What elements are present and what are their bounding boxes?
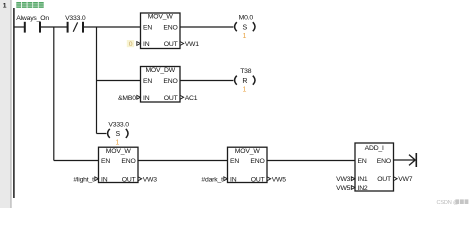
svg-text:IN2: IN2 — [358, 185, 368, 192]
svg-text:1: 1 — [242, 33, 246, 40]
svg-text:S: S — [243, 24, 248, 31]
svg-text:V333.0: V333.0 — [108, 121, 129, 128]
pin marker U4.OUT — [267, 177, 271, 181]
svg-text:R: R — [242, 78, 247, 85]
pin marker U5.IN2 — [351, 186, 355, 190]
wire rung1 rail to contact1 — [14, 26, 25, 28]
svg-text:OUT: OUT — [251, 176, 265, 183]
svg-text:IN: IN — [101, 176, 108, 183]
svg-text:IN: IN — [230, 176, 237, 183]
wire rung1 contact1 to contact2 — [40, 26, 67, 28]
svg-text:VW3: VW3 — [143, 176, 158, 183]
wire branch drop at x=53.8 to bottom rung — [53, 27, 55, 161]
svg-text:&MB0: &MB0 — [118, 95, 136, 102]
pin marker U1.IN — [137, 42, 141, 46]
box MOV_W U3 — [99, 147, 139, 183]
svg-text:VW5: VW5 — [272, 176, 287, 183]
svg-text:S: S — [116, 131, 121, 138]
coil V333.0 (S) — [108, 121, 130, 146]
watermark CSDN — [437, 199, 469, 206]
left power rail — [13, 8, 15, 198]
svg-text:ENO: ENO — [250, 158, 264, 165]
svg-text:OUT: OUT — [377, 176, 391, 183]
pin marker U3.OUT — [138, 177, 142, 181]
pin marker U5.IN1 — [351, 177, 355, 181]
wire branch drop at x=96.5 to rung2 and S-coil — [96, 27, 98, 134]
svg-text:MOV_W: MOV_W — [235, 148, 261, 155]
pin marker U2.IN — [137, 95, 141, 99]
svg-text:EN: EN — [143, 24, 152, 31]
svg-text:MOV_W: MOV_W — [106, 148, 132, 155]
wire rung1 contact2 to box U1 — [83, 26, 141, 28]
wire U1.ENO to coil M0.0 — [180, 26, 233, 28]
box MOV_W U1 — [141, 13, 181, 49]
box MOV_DW U2 — [141, 67, 181, 103]
svg-text:Always_On: Always_On — [16, 15, 49, 22]
svg-text:V333.0: V333.0 — [65, 15, 86, 22]
box MOV_W U4 — [228, 147, 268, 183]
pin marker U4.IN — [224, 177, 228, 181]
box ADD_I U5 — [355, 143, 394, 192]
continuation arrow — [409, 153, 416, 167]
svg-text:VW7: VW7 — [398, 176, 413, 183]
wire U2.ENO to coil T38 — [180, 80, 233, 82]
wire to coil V333.0 — [97, 133, 107, 135]
svg-text:ENO: ENO — [377, 158, 391, 165]
wire U3.ENO to box U4 — [138, 160, 228, 162]
svg-text:0: 0 — [129, 41, 133, 48]
svg-text:VW5: VW5 — [336, 185, 351, 192]
svg-text:T38: T38 — [240, 68, 252, 75]
wire U5.ENO to continuation arrow — [394, 159, 415, 161]
contact V333.0 (NC) — [65, 15, 86, 33]
svg-text:AC1: AC1 — [185, 95, 198, 102]
svg-text:ADD_I: ADD_I — [365, 145, 384, 152]
svg-text:M0.0: M0.0 — [239, 14, 254, 21]
coil M0.0 (S) — [235, 14, 255, 40]
contact Always_On — [16, 15, 49, 33]
svg-text:#light_t: #light_t — [73, 176, 94, 183]
pin marker U5.OUT — [394, 177, 398, 181]
svg-text:ENO: ENO — [163, 78, 177, 85]
svg-text:MOV_DW: MOV_DW — [145, 67, 175, 74]
svg-text:OUT: OUT — [164, 41, 178, 48]
coil T38 (R) — [235, 68, 255, 94]
network number gutter — [0, 0, 11, 208]
svg-text:ENO: ENO — [121, 158, 135, 165]
svg-text:#dark_t: #dark_t — [201, 176, 223, 183]
pin marker U1.OUT — [180, 42, 184, 46]
svg-text:IN1: IN1 — [358, 176, 368, 183]
svg-text:EN: EN — [358, 158, 367, 165]
value 0 at U1.IN (status highlight) — [127, 40, 134, 48]
svg-text:1: 1 — [3, 2, 7, 9]
svg-text:1: 1 — [115, 140, 119, 147]
svg-text:MOV_W: MOV_W — [148, 14, 174, 21]
svg-text:1: 1 — [242, 87, 246, 94]
svg-text:VW1: VW1 — [185, 41, 200, 48]
wire U4.ENO to box U5 — [267, 160, 355, 162]
pin marker U2.OUT — [180, 95, 184, 99]
svg-text:IN: IN — [143, 41, 150, 48]
svg-text:OUT: OUT — [122, 176, 136, 183]
network comment 程序段注释 (green) — [16, 2, 43, 8]
svg-text:OUT: OUT — [164, 95, 178, 102]
svg-text:EN: EN — [143, 78, 152, 85]
svg-text:EN: EN — [101, 158, 110, 165]
svg-text:ENO: ENO — [163, 24, 177, 31]
wire bottom rung from drop to box U3 — [54, 160, 99, 162]
pin marker U3.IN — [95, 177, 99, 181]
svg-text:VW3: VW3 — [336, 176, 351, 183]
svg-text:EN: EN — [230, 158, 239, 165]
wire rung2 from drop to box U2 — [97, 80, 141, 82]
svg-text:IN: IN — [143, 95, 150, 102]
